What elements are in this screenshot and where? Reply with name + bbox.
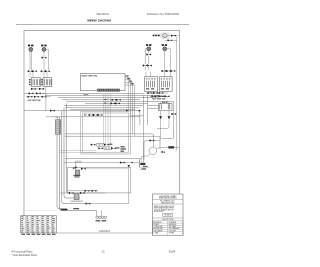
svg-text:P PINK: P PINK (169, 232, 175, 234)
svg-text:TEF303A: TEF303A (96, 12, 109, 16)
svg-text:SUF UNIT SW: SUF UNIT SW (152, 98, 165, 100)
svg-text:24203013: 24203013 (99, 230, 111, 233)
svg-text:SUF UNIT SW: SUF UNIT SW (28, 100, 41, 102)
svg-text:Publication No: 5995430991: Publication No: 5995430991 (147, 12, 180, 16)
svg-text:ELECT OVEN CTRL: ELECT OVEN CTRL (82, 76, 98, 78)
svg-text:WIRING DIAGRAM: WIRING DIAGRAM (87, 18, 111, 22)
svg-text:T TAN: T TAN (154, 231, 159, 234)
svg-text:AT TEMP SW: AT TEMP SW (154, 95, 166, 98)
svg-text:BLUE GREY: BLUE GREY (154, 211, 165, 213)
svg-text:LEGEND: LEGEND (164, 215, 172, 217)
svg-text:01/04: 01/04 (169, 249, 176, 253)
svg-text:OVEN SENSOR: OVEN SENSOR (70, 201, 83, 203)
svg-text:* Non-Illustrated Parts: * Non-Illustrated Parts (12, 253, 38, 257)
